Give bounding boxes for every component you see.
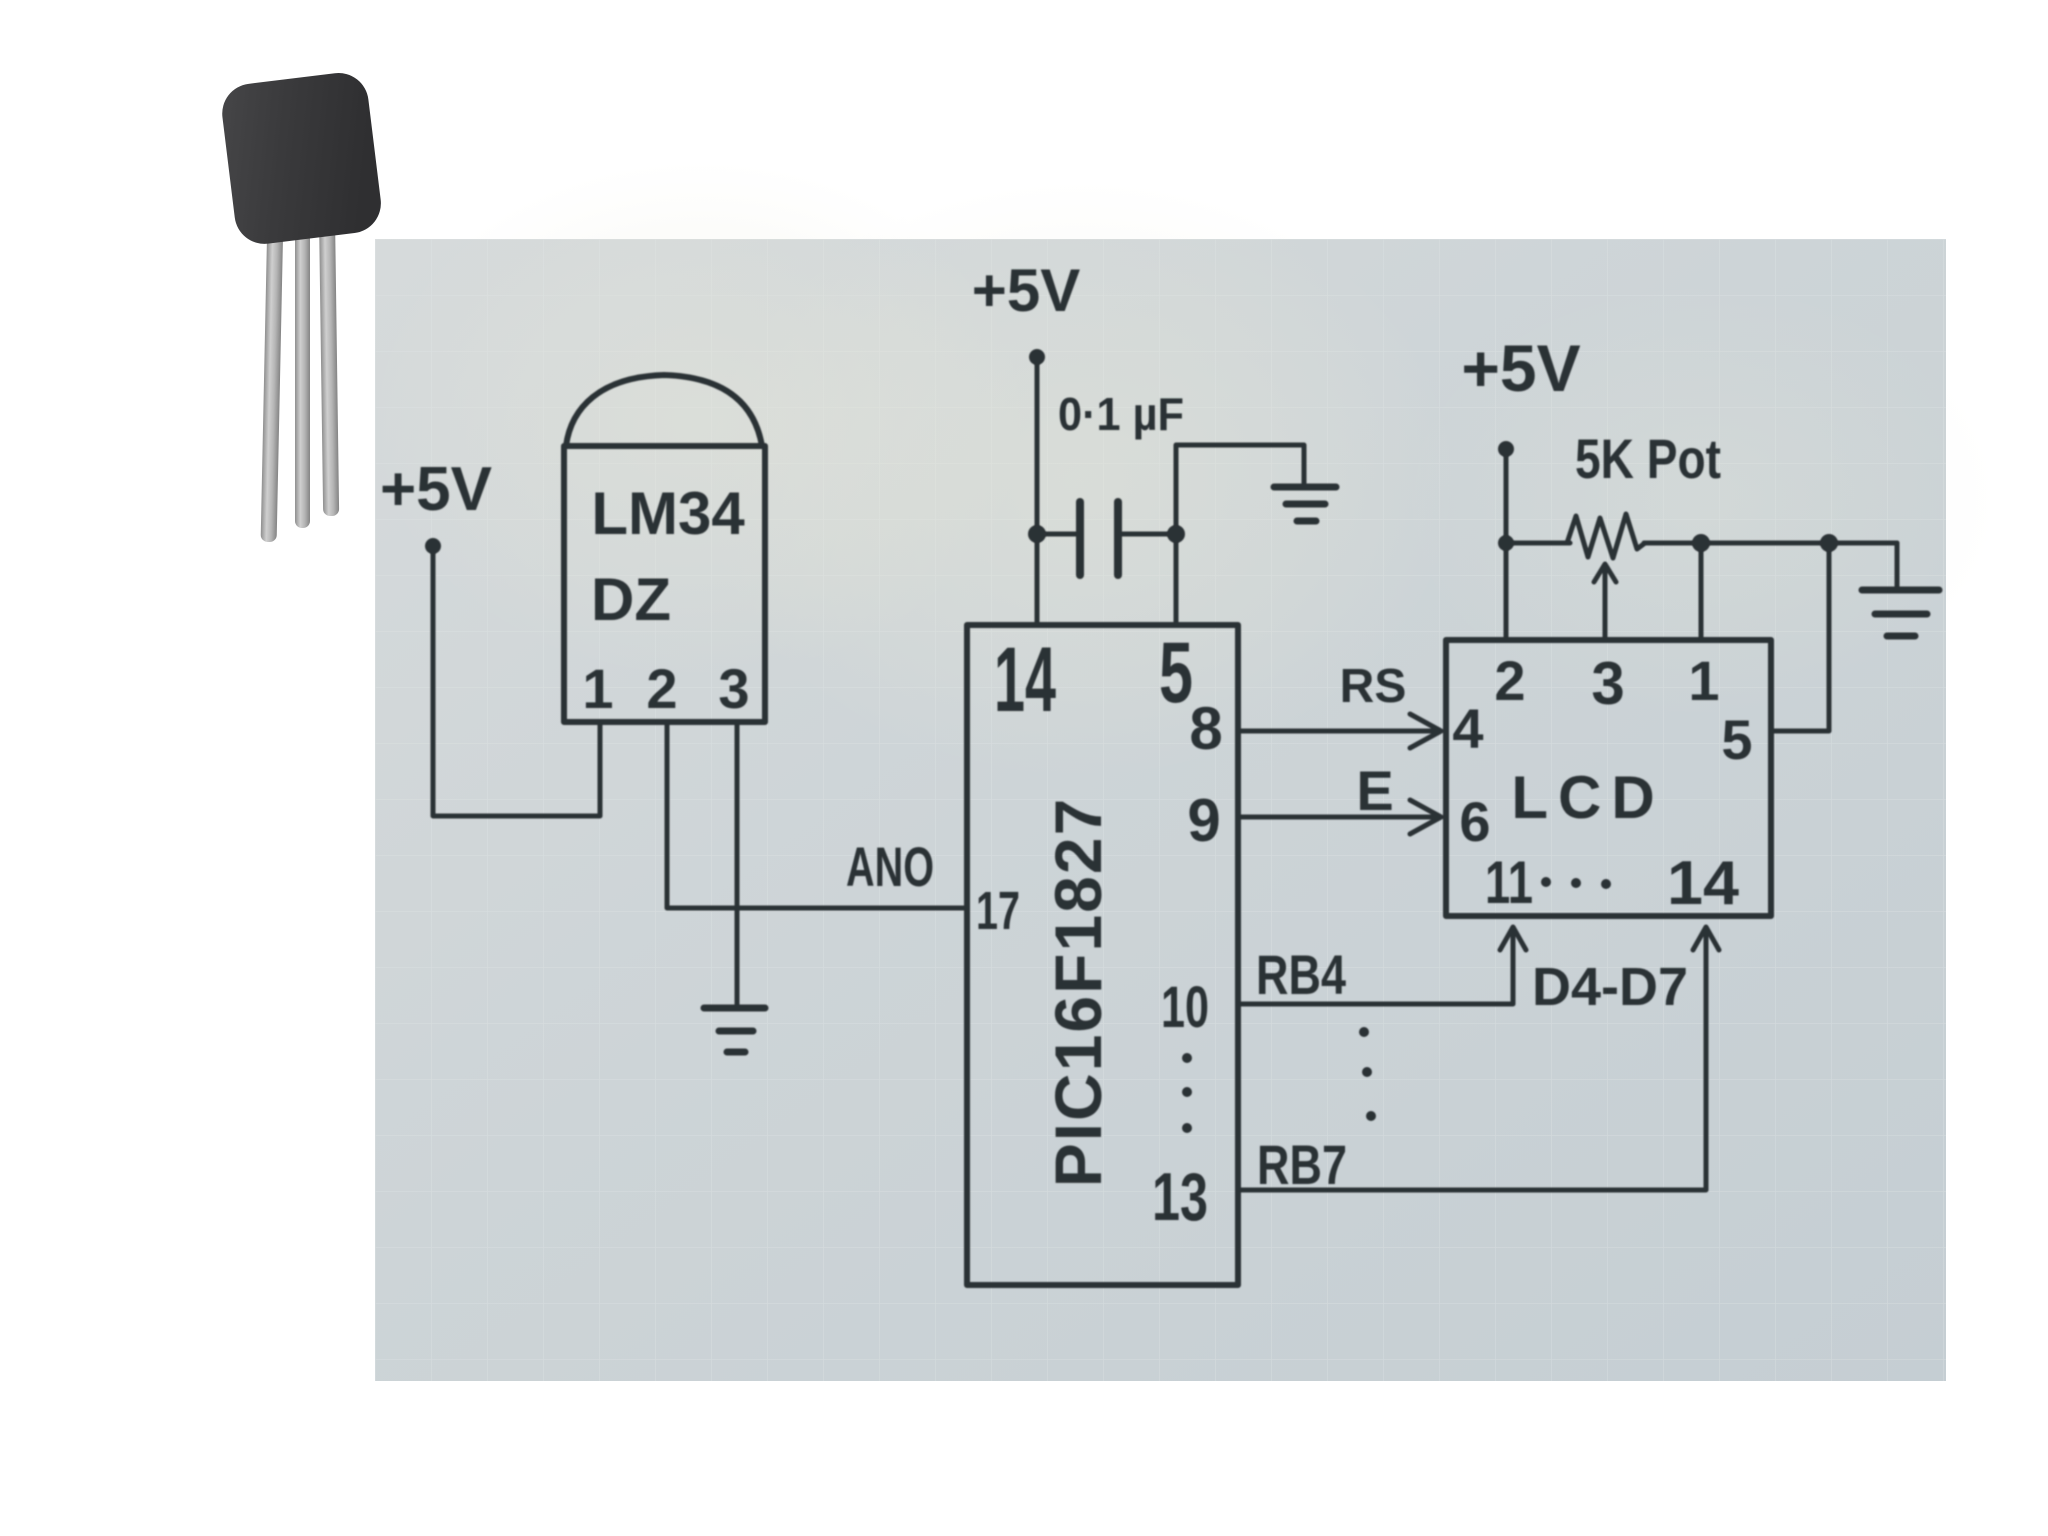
svg-text:2: 2	[646, 657, 677, 720]
svg-text:1: 1	[582, 657, 613, 720]
svg-text:RB7: RB7	[1257, 1133, 1347, 1196]
svg-text:DZ: DZ	[591, 566, 671, 633]
svg-text:ANO: ANO	[846, 835, 934, 898]
svg-text:1: 1	[1688, 649, 1719, 712]
svg-text:RS: RS	[1340, 660, 1407, 713]
svg-text:9: 9	[1187, 787, 1220, 854]
svg-text:3: 3	[718, 657, 749, 720]
svg-text:17: 17	[976, 881, 1020, 941]
svg-text:6: 6	[1459, 790, 1490, 853]
svg-text:5: 5	[1721, 708, 1752, 771]
svg-text:4: 4	[1452, 697, 1483, 760]
svg-text:3: 3	[1591, 650, 1624, 717]
svg-text:14: 14	[994, 629, 1056, 731]
svg-text:0·1 µF: 0·1 µF	[1058, 388, 1184, 440]
svg-text:5: 5	[1159, 625, 1193, 721]
svg-text:8: 8	[1189, 695, 1222, 762]
svg-text:14: 14	[1667, 849, 1740, 918]
svg-text:PIC16F1827: PIC16F1827	[1041, 797, 1115, 1188]
svg-text:13: 13	[1152, 1159, 1208, 1235]
svg-text:11: 11	[1485, 849, 1533, 916]
svg-text:LCD: LCD	[1511, 764, 1664, 831]
svg-text:D4-D7: D4-D7	[1532, 957, 1688, 1017]
svg-text:2: 2	[1494, 649, 1525, 712]
svg-text:5K Pot: 5K Pot	[1575, 427, 1721, 490]
svg-text:10: 10	[1161, 975, 1209, 1040]
svg-text:RB4: RB4	[1256, 943, 1346, 1006]
svg-text:+5V: +5V	[972, 257, 1080, 324]
svg-text:E: E	[1356, 759, 1393, 822]
svg-text:+5V: +5V	[1461, 331, 1580, 405]
svg-text:+5V: +5V	[380, 455, 492, 524]
svg-text:LM34: LM34	[591, 480, 745, 547]
